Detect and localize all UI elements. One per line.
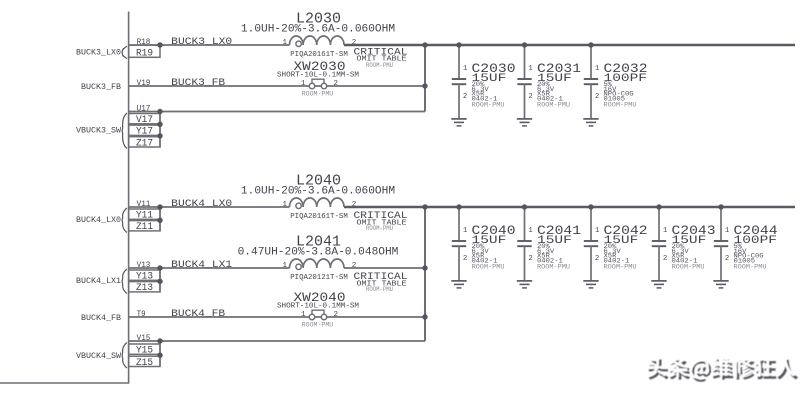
svg-text:V15: V15 [137,334,151,343]
svg-text:T9: T9 [137,310,146,319]
svg-text:2: 2 [334,80,339,88]
svg-text:ROOM-PMU: ROOM-PMU [734,264,767,271]
svg-text:1: 1 [725,227,729,235]
svg-text:1.0UH-20%-3.6A-0.060OHM: 1.0UH-20%-3.6A-0.060OHM [241,23,395,35]
svg-text:ROOM-PMU: ROOM-PMU [302,322,334,329]
svg-text:1: 1 [282,262,287,270]
svg-text:ROOM-PMU: ROOM-PMU [472,264,505,271]
svg-text:V19: V19 [137,79,151,88]
svg-text:SHORT-10L-0.1MM-SM: SHORT-10L-0.1MM-SM [277,303,359,311]
svg-text:V13: V13 [137,261,151,270]
svg-text:ROOM-PMU: ROOM-PMU [672,264,705,271]
svg-text:ROOM-PMU: ROOM-PMU [366,62,393,69]
svg-text:ROOM-PMU: ROOM-PMU [366,286,393,293]
svg-text:R19: R19 [136,49,153,60]
svg-text:Z11: Z11 [136,222,153,233]
svg-text:U17: U17 [137,105,151,114]
svg-text:BUCK4_LX1: BUCK4_LX1 [171,259,232,270]
svg-text:2: 2 [463,255,467,263]
svg-text:2: 2 [725,255,729,263]
svg-text:BUCK3_FB: BUCK3_FB [171,77,225,88]
svg-text:VBUCK3_SW: VBUCK3_SW [76,126,121,135]
svg-text:PIQA20161T-SM: PIQA20161T-SM [290,213,348,221]
svg-text:ROOM-PMU: ROOM-PMU [537,102,570,109]
svg-text:2: 2 [595,93,599,101]
svg-text:ROOM-PMU: ROOM-PMU [604,102,637,109]
svg-text:Z13: Z13 [136,283,153,294]
svg-text:PIQA20121T-SM: PIQA20121T-SM [290,274,348,282]
svg-text:1.0UH-20%-3.6A-0.060OHM: 1.0UH-20%-3.6A-0.060OHM [241,185,395,197]
svg-text:1: 1 [595,227,599,235]
svg-text:Z15: Z15 [136,358,153,369]
svg-text:ROOM-PMU: ROOM-PMU [366,225,393,232]
svg-text:2: 2 [529,93,533,101]
svg-text:2: 2 [463,93,467,101]
svg-text:ROOM-PMU: ROOM-PMU [472,102,505,109]
svg-text:2: 2 [529,255,533,263]
svg-text:VBUCK4_SW: VBUCK4_SW [76,352,121,361]
svg-text:1: 1 [529,227,533,235]
svg-text:1: 1 [663,227,667,235]
svg-text:2: 2 [334,311,339,319]
svg-text:BUCK4_FB: BUCK4_FB [81,314,121,323]
svg-text:1: 1 [529,65,533,73]
svg-text:ROOM-PMU: ROOM-PMU [604,264,637,271]
svg-text:SHORT-10L-0.1MM-SM: SHORT-10L-0.1MM-SM [277,72,359,80]
svg-text:2: 2 [663,255,667,263]
svg-text:2: 2 [352,201,357,209]
svg-text:Z17: Z17 [136,138,153,149]
svg-text:BUCK4_LX0: BUCK4_LX0 [76,216,121,225]
svg-text:0.47UH-20%-3.8A-0.048OHM: 0.47UH-20%-3.8A-0.048OHM [238,246,399,258]
svg-text:1: 1 [463,227,467,235]
svg-text:1: 1 [595,65,599,73]
svg-text:BUCK3_LX0: BUCK3_LX0 [171,36,232,47]
svg-text:2: 2 [352,262,357,270]
svg-text:1: 1 [301,311,306,319]
svg-text:BUCK4_FB: BUCK4_FB [171,308,225,319]
svg-text:BUCK4_LX0: BUCK4_LX0 [171,198,232,209]
svg-text:BUCK4_LX1: BUCK4_LX1 [76,277,121,286]
svg-text:1: 1 [282,201,287,209]
svg-text:1: 1 [282,39,287,47]
svg-text:2: 2 [595,255,599,263]
svg-text:V11: V11 [137,200,151,209]
svg-text:1: 1 [463,65,467,73]
svg-text:BUCK3_LX0: BUCK3_LX0 [76,49,121,58]
svg-text:ROOM-PMU: ROOM-PMU [302,91,334,98]
svg-text:BUCK3_FB: BUCK3_FB [81,83,121,92]
svg-text:1: 1 [301,80,306,88]
svg-text:ROOM-PMU: ROOM-PMU [537,264,570,271]
svg-text:Y15: Y15 [136,346,153,357]
